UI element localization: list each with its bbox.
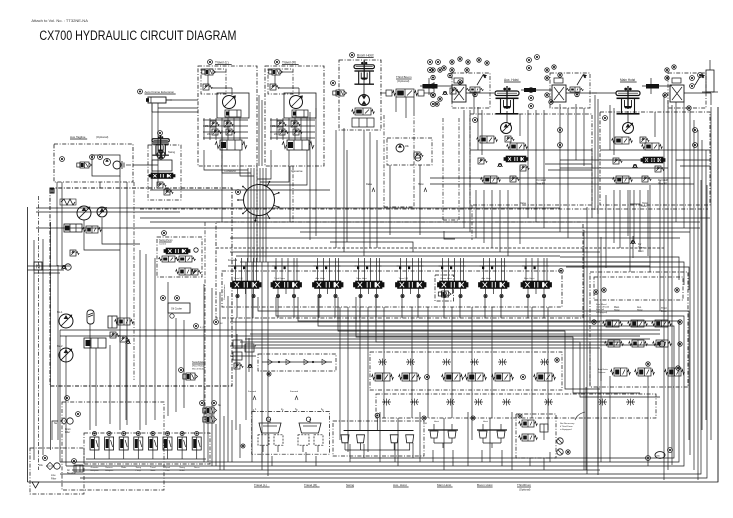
svg-text:(Optional): (Optional) xyxy=(519,488,531,492)
label third drum xyxy=(517,483,532,492)
swing drive block xyxy=(148,131,181,200)
svg-text:M: M xyxy=(425,423,427,425)
air breather xyxy=(67,459,83,475)
svg-text:Attach to Vol. No. : TT32NE-NA: Attach to Vol. No. : TT32NE-NA xyxy=(31,18,88,23)
right wire bus vertical xyxy=(664,95,718,482)
boom hoist brake cylinders xyxy=(471,416,507,448)
winch control spool row xyxy=(372,373,556,381)
top center drop wires xyxy=(330,140,455,252)
svg-text:Swing Pump: Swing Pump xyxy=(159,239,173,242)
label hoist mid xyxy=(630,204,647,208)
oil cooler xyxy=(161,296,190,319)
swing pump control cluster xyxy=(157,231,202,277)
svg-text:is Equipped: is Equipped xyxy=(560,429,572,431)
pilot row to bus wires xyxy=(208,412,550,470)
left region wires xyxy=(57,100,198,430)
label aux hoist xyxy=(393,483,409,487)
label travel R xyxy=(304,483,320,487)
wire bus upper xyxy=(36,208,710,238)
engine-pump assembly box xyxy=(50,188,233,386)
svg-text:Aux. Hoist: Aux. Hoist xyxy=(504,78,519,82)
svg-text:Hoist: Hoist xyxy=(483,420,488,423)
main hoist pump circuit box xyxy=(600,112,710,205)
svg-text:Swing: Swing xyxy=(136,467,141,469)
main control valve section Third Drum xyxy=(271,258,302,298)
relief and check 2 xyxy=(120,336,131,344)
wire bus mid xyxy=(60,322,660,348)
aux hoist circled callouts xyxy=(527,55,540,109)
right wire bundle horizontals xyxy=(140,160,708,209)
wire verticals center xyxy=(246,262,548,476)
main hoist winch drum xyxy=(616,78,640,115)
line filter xyxy=(30,448,84,494)
svg-text:Travel (L): Travel (L) xyxy=(254,483,267,487)
svg-text:Tower: Tower xyxy=(638,247,644,250)
winch pilot valve group box xyxy=(370,352,562,390)
svg-text:Filter: Filter xyxy=(51,478,57,481)
svg-text:Auto Brake: Auto Brake xyxy=(598,368,609,371)
svg-text:Forward: Forward xyxy=(290,390,299,393)
tower front check xyxy=(630,236,644,258)
free fall valve row 2 xyxy=(605,340,672,347)
third boom optional valve cluster xyxy=(380,60,459,118)
svg-text:Aux Tagline: Aux Tagline xyxy=(70,135,86,139)
svg-text:Spiral: Spiral xyxy=(165,467,171,469)
svg-text:Travel (L): Travel (L) xyxy=(215,61,229,65)
free fall assembly box xyxy=(590,272,688,387)
bank right callout xyxy=(559,269,563,273)
top cluster dash enclosures xyxy=(384,112,472,240)
svg-text:Control: Control xyxy=(159,243,167,246)
pilot row lower box xyxy=(376,394,656,418)
swivel joint xyxy=(236,181,280,222)
staircase wires bank-to-right xyxy=(258,257,689,455)
svg-text:Hoist: Hoist xyxy=(641,205,647,208)
free fall valve row 1 xyxy=(603,320,672,327)
raise hoist arrows xyxy=(366,183,427,192)
svg-text:Hoist: Hoist xyxy=(434,420,439,423)
travel motor block Travel (L) xyxy=(198,60,257,173)
drain filter cluster xyxy=(52,396,164,490)
svg-text:Main Hoist: Main Hoist xyxy=(437,483,451,487)
solenoid valve manifold xyxy=(84,432,210,472)
svg-text:N: N xyxy=(36,265,40,271)
svg-text:Hoisess: Hoisess xyxy=(106,467,113,469)
charge relief and check xyxy=(61,250,79,270)
svg-text:Travel (R): Travel (R) xyxy=(282,61,296,65)
svg-text:Travel: Travel xyxy=(150,467,156,469)
svg-text:Forward: Forward xyxy=(228,259,238,262)
svg-text:MD: MD xyxy=(657,456,661,458)
left feeder lines xyxy=(28,196,71,482)
free fall callouts xyxy=(592,288,682,370)
main hoist drive cluster xyxy=(521,65,616,108)
pump coupling damper xyxy=(60,199,76,205)
label main hoist xyxy=(437,483,453,487)
header note xyxy=(31,18,88,23)
pilot piping group box xyxy=(216,222,583,318)
label boom hoist xyxy=(477,483,493,487)
main hoist brake cylinders xyxy=(422,416,458,448)
forward arrows xyxy=(248,390,299,400)
main control valve section Travel (R) xyxy=(395,258,426,298)
travel motor block Travel (R) xyxy=(265,60,324,173)
svg-text:Main Hoist: Main Hoist xyxy=(620,78,635,82)
svg-text:Forward: Forward xyxy=(224,169,235,173)
svg-text:Main Hoist: Main Hoist xyxy=(524,277,535,280)
svg-text:(Optional): (Optional) xyxy=(397,79,409,83)
svg-text:ThirdDrum: ThirdDrum xyxy=(517,483,532,487)
svg-text:Breather: Breather xyxy=(67,472,76,475)
swing aux brake cylinders xyxy=(333,413,427,456)
wire bus above valve bank xyxy=(216,248,664,266)
label swing xyxy=(346,483,355,487)
aux hoist pump circuit box xyxy=(470,114,592,205)
mode solenoid pair xyxy=(200,401,222,423)
pump No.1 xyxy=(57,310,73,328)
svg-text:Hoist: Hoist xyxy=(418,183,424,186)
pilot pressure row lower xyxy=(382,399,635,406)
travel brake cylinders xyxy=(241,408,329,454)
svg-text:Oil Cooler: Oil Cooler xyxy=(171,308,182,311)
jib hoist drive cluster xyxy=(642,65,711,110)
svg-text:Boom Hoist: Boom Hoist xyxy=(357,54,374,58)
svg-text:Not Necessary: Not Necessary xyxy=(560,422,575,425)
svg-text:Forward: Forward xyxy=(248,390,257,393)
svg-text:Gannate: Gannate xyxy=(91,466,100,469)
bottom return bus xyxy=(28,107,719,482)
aux tagline valve box xyxy=(54,135,133,182)
svg-text:Air: Air xyxy=(67,469,70,472)
svg-text:Boom Hoist: Boom Hoist xyxy=(477,483,493,487)
main control valve bank box xyxy=(222,259,562,307)
pump regulator valves xyxy=(64,224,102,233)
third boom pump box xyxy=(387,138,432,165)
svg-text:Swing: Swing xyxy=(168,150,176,154)
accumulator xyxy=(87,310,94,336)
svg-text:if Third Drum: if Third Drum xyxy=(560,425,573,428)
corner wires into free fall box xyxy=(338,297,660,397)
dash-dot boundary verticals xyxy=(134,130,293,420)
main control valve section Aux Hoist xyxy=(312,258,343,298)
svg-text:Release: Release xyxy=(598,372,606,374)
auto frame extension cylinder xyxy=(138,89,198,112)
boom hoist motor block xyxy=(331,53,381,130)
svg-text:M: M xyxy=(50,189,54,194)
third drum brake cluster xyxy=(516,414,556,458)
svg-text:Aux. Hoist: Aux. Hoist xyxy=(393,483,407,487)
svg-text:Swashplate: Swashplate xyxy=(192,361,205,364)
svg-text:Raise: Raise xyxy=(520,202,527,205)
free fall to bus wires xyxy=(586,376,648,475)
third drum note xyxy=(557,412,585,455)
free fall valve row 3 xyxy=(555,358,685,376)
third boom circled numbers xyxy=(442,57,489,72)
swashplate solenoid valve xyxy=(179,361,206,380)
title xyxy=(39,28,236,44)
svg-text:Front: Front xyxy=(638,250,644,253)
svg-text:Swing: Swing xyxy=(179,467,184,469)
svg-text:(Optional): (Optional) xyxy=(96,135,108,139)
aux hoist winch drum xyxy=(495,78,521,115)
main control valve section Aux Hoist xyxy=(478,258,509,298)
right mid verticals xyxy=(584,180,660,474)
svg-text:Hoist: Hoist xyxy=(614,309,620,312)
aux hoist drive cluster xyxy=(420,68,494,108)
svg-text:CX700 HYDRAULIC CIRCUIT DIAGRA: CX700 HYDRAULIC CIRCUIT DIAGRAM xyxy=(39,28,236,44)
main control valve section Boom Hoist xyxy=(435,258,468,301)
shuttle valve row xyxy=(258,354,336,376)
svg-text:Counterbalance: Counterbalance xyxy=(223,284,226,300)
svg-text:(Hoist Robot/: (Hoist Robot/ xyxy=(192,365,205,368)
svg-text:Travel (R): Travel (R) xyxy=(399,277,409,280)
pilot pressure row upper xyxy=(378,359,549,366)
top blocks feed verticals xyxy=(336,102,684,256)
pump No.2 xyxy=(57,344,73,362)
right edge callouts xyxy=(690,60,718,92)
label travel L xyxy=(254,483,270,487)
bank left note xyxy=(223,284,226,300)
pilot pressure valves xyxy=(108,316,134,338)
main control valve section Travel (L) xyxy=(230,258,261,298)
reservoir tank symbol xyxy=(32,482,39,488)
svg-text:Raise: Raise xyxy=(366,183,373,186)
left-center vertical wires xyxy=(204,284,236,470)
cooler callouts xyxy=(194,320,224,329)
svg-text:Main Hoist: Main Hoist xyxy=(357,277,368,280)
main pumps P1 P2 xyxy=(77,206,107,220)
top right connector wires xyxy=(469,93,710,214)
svg-text:Travel (R): Travel (R) xyxy=(304,483,317,487)
port numbers xyxy=(253,408,324,412)
node N box xyxy=(34,262,42,271)
svg-text:Hoist: Hoist xyxy=(637,309,643,312)
pump control valve xyxy=(84,338,106,348)
svg-text:Swing: Swing xyxy=(346,483,355,487)
bottom right MD symbol xyxy=(646,448,673,461)
bank lower port stubs xyxy=(237,297,544,318)
wire bundle travel lines xyxy=(204,95,307,262)
svg-text:Winch Mode): Winch Mode) xyxy=(192,369,205,371)
svg-text:Mode: Mode xyxy=(121,467,127,469)
svg-text:Auto Frame Extension: Auto Frame Extension xyxy=(145,90,175,94)
block to bank wires xyxy=(222,104,634,256)
bank outlet relief stack xyxy=(230,334,256,372)
svg-text:Servo: Servo xyxy=(194,467,200,469)
main control valve section Main Hoist xyxy=(353,258,384,298)
main control valve section Main Hoist xyxy=(521,258,552,298)
